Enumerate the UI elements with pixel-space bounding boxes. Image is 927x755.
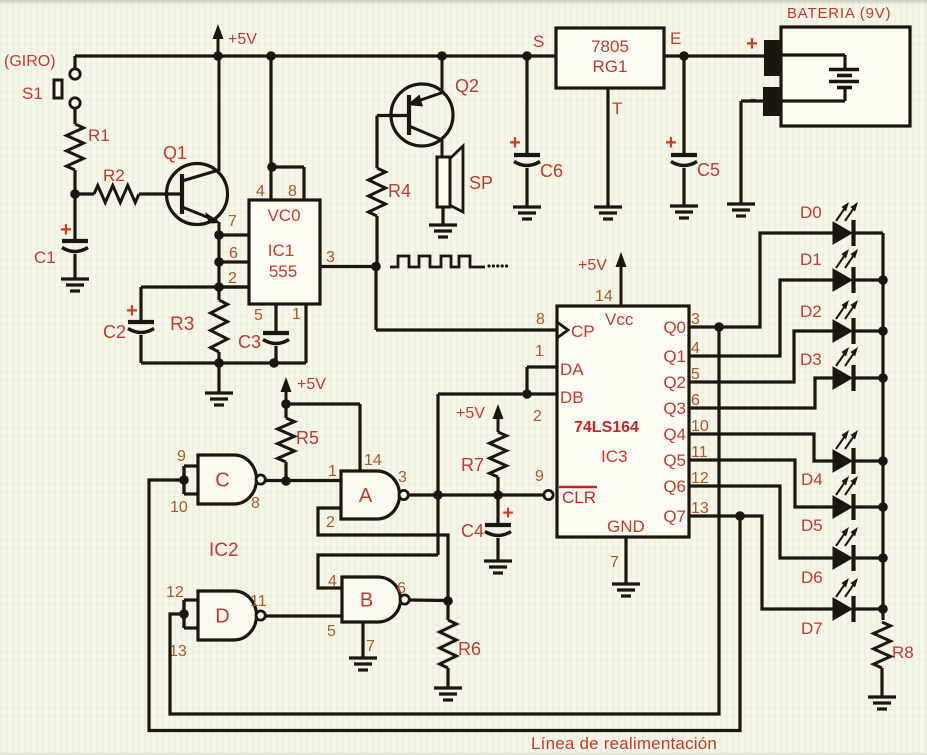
svg-text:+5V: +5V bbox=[297, 376, 326, 393]
svg-text:8: 8 bbox=[288, 183, 297, 200]
svg-text:9: 9 bbox=[177, 448, 186, 465]
svg-text:1: 1 bbox=[535, 343, 544, 360]
svg-text:+: + bbox=[746, 33, 758, 55]
svg-text:C3: C3 bbox=[238, 332, 261, 352]
svg-text:GND: GND bbox=[607, 517, 645, 536]
svg-text:CP: CP bbox=[571, 322, 595, 341]
svg-text:R7: R7 bbox=[461, 455, 484, 475]
svg-text:1: 1 bbox=[328, 463, 337, 480]
svg-text:IC2: IC2 bbox=[209, 540, 239, 561]
svg-text:Q1: Q1 bbox=[663, 347, 686, 366]
svg-text:S: S bbox=[533, 32, 544, 51]
svg-text:1: 1 bbox=[292, 306, 301, 323]
svg-text:D5: D5 bbox=[801, 516, 823, 535]
svg-text:10: 10 bbox=[170, 499, 188, 516]
svg-text:CLR: CLR bbox=[562, 488, 596, 507]
svg-text:+: + bbox=[126, 300, 138, 322]
svg-text:R8: R8 bbox=[892, 643, 914, 662]
svg-text:Vcc: Vcc bbox=[605, 310, 634, 329]
svg-text:R4: R4 bbox=[388, 181, 411, 201]
svg-text:R6: R6 bbox=[458, 639, 481, 659]
svg-text:+: + bbox=[502, 503, 513, 524]
svg-text:6: 6 bbox=[397, 580, 406, 597]
svg-text:5: 5 bbox=[254, 307, 263, 324]
svg-text:+5V: +5V bbox=[228, 31, 257, 48]
svg-text:Q0: Q0 bbox=[663, 318, 686, 337]
svg-text:Q7: Q7 bbox=[663, 507, 686, 526]
svg-text:Q3: Q3 bbox=[663, 399, 686, 418]
svg-text:74LS164: 74LS164 bbox=[574, 419, 639, 436]
svg-text:4: 4 bbox=[256, 183, 265, 200]
svg-text:R5: R5 bbox=[296, 428, 319, 448]
svg-text:7: 7 bbox=[228, 213, 237, 230]
svg-text:VC0: VC0 bbox=[267, 206, 300, 225]
svg-text:RG1: RG1 bbox=[593, 57, 628, 76]
svg-text:Q6: Q6 bbox=[663, 477, 686, 496]
svg-text:+: + bbox=[509, 132, 521, 154]
svg-text:R1: R1 bbox=[88, 126, 110, 145]
svg-text:2: 2 bbox=[533, 408, 542, 425]
svg-text:E: E bbox=[670, 29, 681, 48]
svg-text:11: 11 bbox=[250, 593, 267, 610]
svg-text:6: 6 bbox=[229, 245, 238, 262]
svg-text:S1: S1 bbox=[22, 84, 43, 103]
svg-text:8: 8 bbox=[251, 495, 260, 512]
svg-text:9: 9 bbox=[535, 468, 544, 485]
svg-text:D2: D2 bbox=[800, 302, 822, 321]
svg-text:Q5: Q5 bbox=[663, 451, 686, 470]
svg-text:14: 14 bbox=[364, 452, 382, 469]
svg-text:D4: D4 bbox=[801, 470, 823, 489]
svg-text:14: 14 bbox=[595, 288, 613, 305]
svg-text:555: 555 bbox=[269, 262, 297, 281]
svg-text:B: B bbox=[360, 590, 373, 612]
svg-text:+5V: +5V bbox=[578, 257, 607, 274]
svg-text:DA: DA bbox=[560, 360, 584, 379]
svg-text:BATERIA (9V): BATERIA (9V) bbox=[787, 5, 891, 22]
svg-text:D1: D1 bbox=[800, 250, 822, 269]
svg-text:C4: C4 bbox=[461, 521, 484, 541]
svg-text:8: 8 bbox=[536, 311, 545, 328]
svg-text:7: 7 bbox=[610, 554, 619, 571]
svg-text:Q2: Q2 bbox=[663, 373, 686, 392]
svg-text:Q2: Q2 bbox=[455, 76, 479, 96]
svg-text:C1: C1 bbox=[34, 248, 56, 267]
svg-text:13: 13 bbox=[169, 643, 187, 660]
svg-text:12: 12 bbox=[166, 584, 184, 601]
svg-text:A: A bbox=[359, 485, 373, 507]
svg-text:SP: SP bbox=[469, 173, 493, 193]
svg-text:7: 7 bbox=[366, 638, 375, 655]
svg-text:IC1: IC1 bbox=[268, 241, 294, 260]
svg-text:C6: C6 bbox=[540, 161, 563, 181]
svg-text:+: + bbox=[665, 132, 677, 154]
svg-text:-: - bbox=[749, 86, 756, 111]
svg-text:7805: 7805 bbox=[591, 37, 629, 56]
svg-text:3: 3 bbox=[398, 469, 407, 486]
svg-text:+5V: +5V bbox=[456, 405, 485, 422]
svg-text:5: 5 bbox=[327, 623, 336, 640]
svg-text:Línea de realimentación: Línea de realimentación bbox=[531, 734, 717, 753]
svg-text:2: 2 bbox=[228, 270, 237, 287]
svg-text:(GIRO): (GIRO) bbox=[4, 53, 56, 70]
svg-text:T: T bbox=[612, 99, 622, 118]
svg-text:Q1: Q1 bbox=[163, 143, 187, 163]
svg-text:3: 3 bbox=[326, 249, 335, 266]
svg-text:D7: D7 bbox=[801, 619, 823, 638]
svg-text:DB: DB bbox=[560, 388, 584, 407]
svg-text:R3: R3 bbox=[170, 314, 194, 335]
svg-text:R2: R2 bbox=[103, 166, 125, 185]
svg-text:D3: D3 bbox=[800, 350, 822, 369]
svg-text:Q4: Q4 bbox=[663, 425, 686, 444]
svg-text:C: C bbox=[215, 470, 229, 492]
svg-text:D0: D0 bbox=[800, 203, 822, 222]
svg-text:D: D bbox=[215, 606, 229, 628]
svg-text:IC3: IC3 bbox=[601, 447, 627, 466]
svg-text:2: 2 bbox=[326, 514, 335, 531]
svg-text:C5: C5 bbox=[697, 160, 720, 180]
svg-text:+: + bbox=[60, 219, 72, 241]
svg-text:D6: D6 bbox=[801, 568, 823, 587]
svg-text:C2: C2 bbox=[103, 322, 126, 342]
svg-text:4: 4 bbox=[328, 573, 337, 590]
